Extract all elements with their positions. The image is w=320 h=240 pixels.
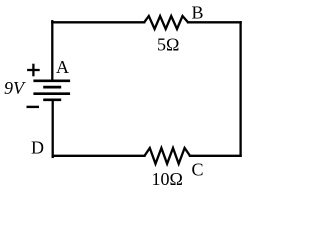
battery positive (+) terminal marking [27,64,40,77]
svg-text:9V: 9V [4,78,26,98]
resistor R2 10-ohm (bottom) [145,148,191,164]
svg-text:B: B [192,2,204,22]
battery B1 9V (two-cell symbol) [33,81,70,100]
wire: right vertical (node B to node C side) [239,22,241,156]
wire: bottom horizontal, right segment (corner to 10-ohm resistor) [190,155,241,157]
wire: bottom horizontal, left segment (resistor to node D corner) [53,155,145,157]
svg-text:D: D [31,138,44,158]
wire: top horizontal, left segment (corner to 5-ohm resistor) [52,21,144,23]
svg-text:10Ω: 10Ω [152,169,183,189]
svg-text:A: A [56,57,69,77]
battery negative (-) terminal marking [27,106,40,108]
svg-text:C: C [192,160,204,180]
wire: node D corner up to battery negative terminal [52,100,54,157]
wire: battery positive terminal up to top-left corner [51,21,53,81]
resistor R1 5-ohm (top) [144,16,188,29]
svg-text:5Ω: 5Ω [157,35,179,55]
wire: top horizontal, right segment (resistor to node B corner) [188,21,241,23]
